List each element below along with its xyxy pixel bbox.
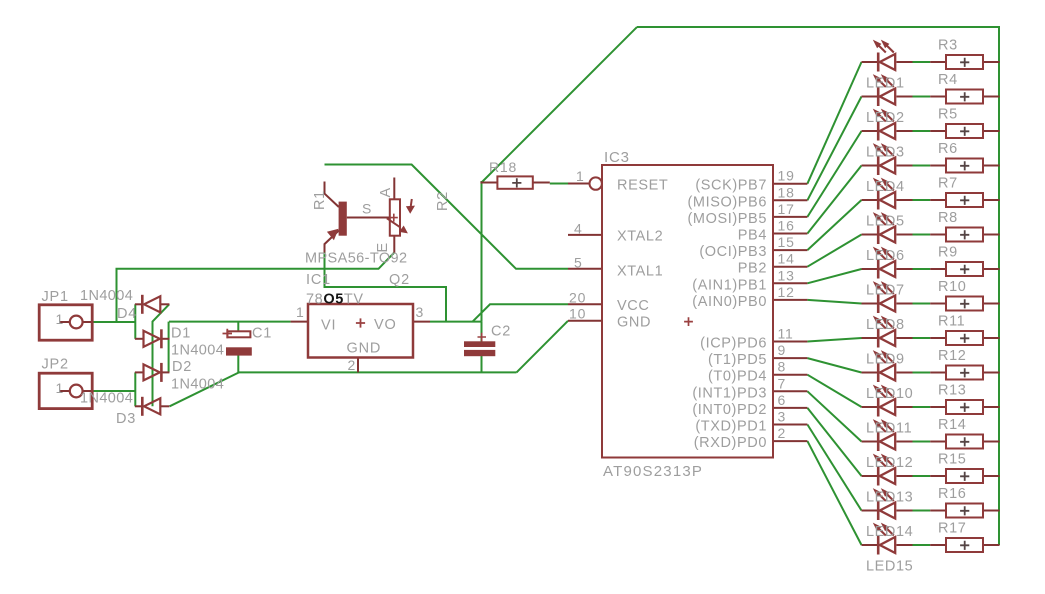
svg-text:R4: R4 bbox=[938, 72, 958, 88]
svg-text:LED5: LED5 bbox=[866, 214, 905, 230]
svg-text:D2: D2 bbox=[172, 359, 192, 375]
svg-text:VO: VO bbox=[374, 317, 397, 333]
svg-text:R18: R18 bbox=[489, 159, 517, 175]
svg-text:(INT1)PD3: (INT1)PD3 bbox=[692, 385, 767, 401]
svg-text:D3: D3 bbox=[116, 411, 136, 427]
svg-text:(T1)PD5: (T1)PD5 bbox=[708, 352, 767, 368]
svg-text:LED15: LED15 bbox=[866, 559, 913, 575]
svg-text:8: 8 bbox=[778, 359, 787, 375]
svg-text:D1: D1 bbox=[171, 326, 191, 342]
svg-text:C2: C2 bbox=[491, 324, 511, 340]
svg-text:LED6: LED6 bbox=[866, 248, 905, 264]
svg-text:LED9: LED9 bbox=[866, 352, 905, 368]
svg-text:R11: R11 bbox=[938, 314, 965, 330]
svg-text:R8: R8 bbox=[938, 210, 958, 226]
svg-text:6: 6 bbox=[778, 392, 787, 408]
svg-text:R3: R3 bbox=[938, 38, 958, 54]
svg-text:XTAL2: XTAL2 bbox=[617, 229, 663, 245]
svg-text:R13: R13 bbox=[938, 383, 966, 399]
svg-text:LED4: LED4 bbox=[866, 179, 905, 195]
svg-text:R14: R14 bbox=[938, 417, 966, 433]
svg-text:Q2: Q2 bbox=[389, 272, 410, 288]
svg-text:LED10: LED10 bbox=[866, 386, 913, 402]
svg-text:(T0)PD4: (T0)PD4 bbox=[708, 369, 767, 385]
svg-text:(OCI)PB3: (OCI)PB3 bbox=[699, 244, 767, 260]
svg-text:(MOSI)PB5: (MOSI)PB5 bbox=[687, 211, 767, 227]
svg-text:10: 10 bbox=[569, 306, 586, 322]
svg-text:JP1: JP1 bbox=[42, 289, 69, 305]
svg-text:R5: R5 bbox=[938, 107, 958, 123]
svg-text:2: 2 bbox=[778, 425, 787, 441]
svg-text:7: 7 bbox=[778, 375, 787, 391]
svg-text:17: 17 bbox=[778, 201, 795, 217]
svg-text:R10: R10 bbox=[938, 279, 966, 295]
svg-text:14: 14 bbox=[778, 251, 795, 267]
svg-text:3: 3 bbox=[416, 304, 425, 320]
svg-text:3: 3 bbox=[778, 409, 787, 425]
svg-text:2: 2 bbox=[348, 357, 357, 373]
svg-text:RESET: RESET bbox=[617, 178, 668, 194]
svg-text:(SCK)PB7: (SCK)PB7 bbox=[695, 178, 767, 194]
svg-text:12: 12 bbox=[778, 284, 795, 300]
svg-text:1: 1 bbox=[576, 168, 585, 184]
svg-text:JP2: JP2 bbox=[42, 357, 69, 373]
svg-text:18: 18 bbox=[778, 184, 795, 200]
svg-text:R1: R1 bbox=[312, 190, 328, 210]
svg-text:(TXD)PD1: (TXD)PD1 bbox=[695, 419, 767, 435]
svg-text:LED8: LED8 bbox=[866, 317, 905, 333]
svg-text:LED11: LED11 bbox=[866, 421, 912, 437]
svg-text:R16: R16 bbox=[938, 486, 966, 502]
svg-text:15: 15 bbox=[778, 234, 795, 250]
svg-text:LED12: LED12 bbox=[866, 455, 913, 471]
svg-text:1N4004: 1N4004 bbox=[80, 391, 133, 407]
svg-text:LED1: LED1 bbox=[866, 76, 905, 92]
svg-text:VI: VI bbox=[321, 318, 336, 334]
svg-text:IC3: IC3 bbox=[604, 149, 630, 166]
svg-text:LED14: LED14 bbox=[866, 524, 913, 540]
svg-text:78O5TV: 78O5TV bbox=[306, 292, 364, 308]
svg-text:R9: R9 bbox=[938, 245, 958, 261]
svg-text:16: 16 bbox=[778, 218, 795, 234]
svg-text:VCC: VCC bbox=[617, 298, 649, 314]
svg-text:(AIN0)PB0: (AIN0)PB0 bbox=[692, 294, 767, 310]
svg-text:GND: GND bbox=[347, 341, 382, 357]
svg-text:11: 11 bbox=[778, 326, 794, 342]
svg-text:MPSA56-TO92: MPSA56-TO92 bbox=[305, 251, 407, 267]
svg-text:20: 20 bbox=[569, 290, 586, 306]
svg-text:S: S bbox=[362, 201, 372, 217]
svg-text:LED7: LED7 bbox=[866, 283, 905, 299]
svg-text:(ICP)PD6: (ICP)PD6 bbox=[700, 336, 767, 352]
svg-text:PB2: PB2 bbox=[738, 261, 767, 277]
svg-text:LED13: LED13 bbox=[866, 490, 913, 506]
svg-text:R12: R12 bbox=[938, 348, 966, 364]
svg-text:R7: R7 bbox=[938, 176, 958, 192]
svg-text:1: 1 bbox=[296, 304, 305, 320]
svg-text:(INT0)PD2: (INT0)PD2 bbox=[692, 402, 767, 418]
svg-text:R17: R17 bbox=[938, 521, 966, 537]
svg-text:PB4: PB4 bbox=[738, 228, 767, 244]
svg-text:19: 19 bbox=[778, 168, 795, 184]
svg-text:1N4004: 1N4004 bbox=[171, 343, 224, 359]
svg-text:E: E bbox=[375, 242, 391, 252]
svg-text:13: 13 bbox=[778, 267, 795, 283]
svg-text:1: 1 bbox=[56, 311, 65, 327]
svg-text:A: A bbox=[378, 187, 394, 197]
svg-text:AT90S2313P: AT90S2313P bbox=[603, 463, 703, 480]
svg-text:4: 4 bbox=[574, 221, 583, 237]
svg-text:9: 9 bbox=[778, 342, 787, 358]
svg-text:1N4004: 1N4004 bbox=[80, 288, 133, 304]
svg-text:(RXD)PD0: (RXD)PD0 bbox=[694, 435, 767, 451]
svg-text:R2: R2 bbox=[435, 191, 451, 211]
svg-text:LED2: LED2 bbox=[866, 110, 905, 126]
svg-text:1N4004: 1N4004 bbox=[171, 377, 224, 393]
svg-text:C1: C1 bbox=[252, 326, 272, 342]
svg-text:5: 5 bbox=[574, 255, 583, 271]
svg-text:XTAL1: XTAL1 bbox=[617, 263, 663, 279]
svg-text:D4: D4 bbox=[117, 306, 137, 322]
svg-text:IC1: IC1 bbox=[306, 272, 331, 288]
svg-text:GND: GND bbox=[617, 314, 651, 330]
svg-text:1: 1 bbox=[56, 380, 65, 396]
svg-text:LED3: LED3 bbox=[866, 145, 905, 161]
svg-text:R6: R6 bbox=[938, 141, 958, 157]
svg-text:(AIN1)PB1: (AIN1)PB1 bbox=[692, 277, 767, 293]
svg-text:R15: R15 bbox=[938, 452, 966, 468]
svg-text:(MISO)PB6: (MISO)PB6 bbox=[687, 194, 767, 210]
